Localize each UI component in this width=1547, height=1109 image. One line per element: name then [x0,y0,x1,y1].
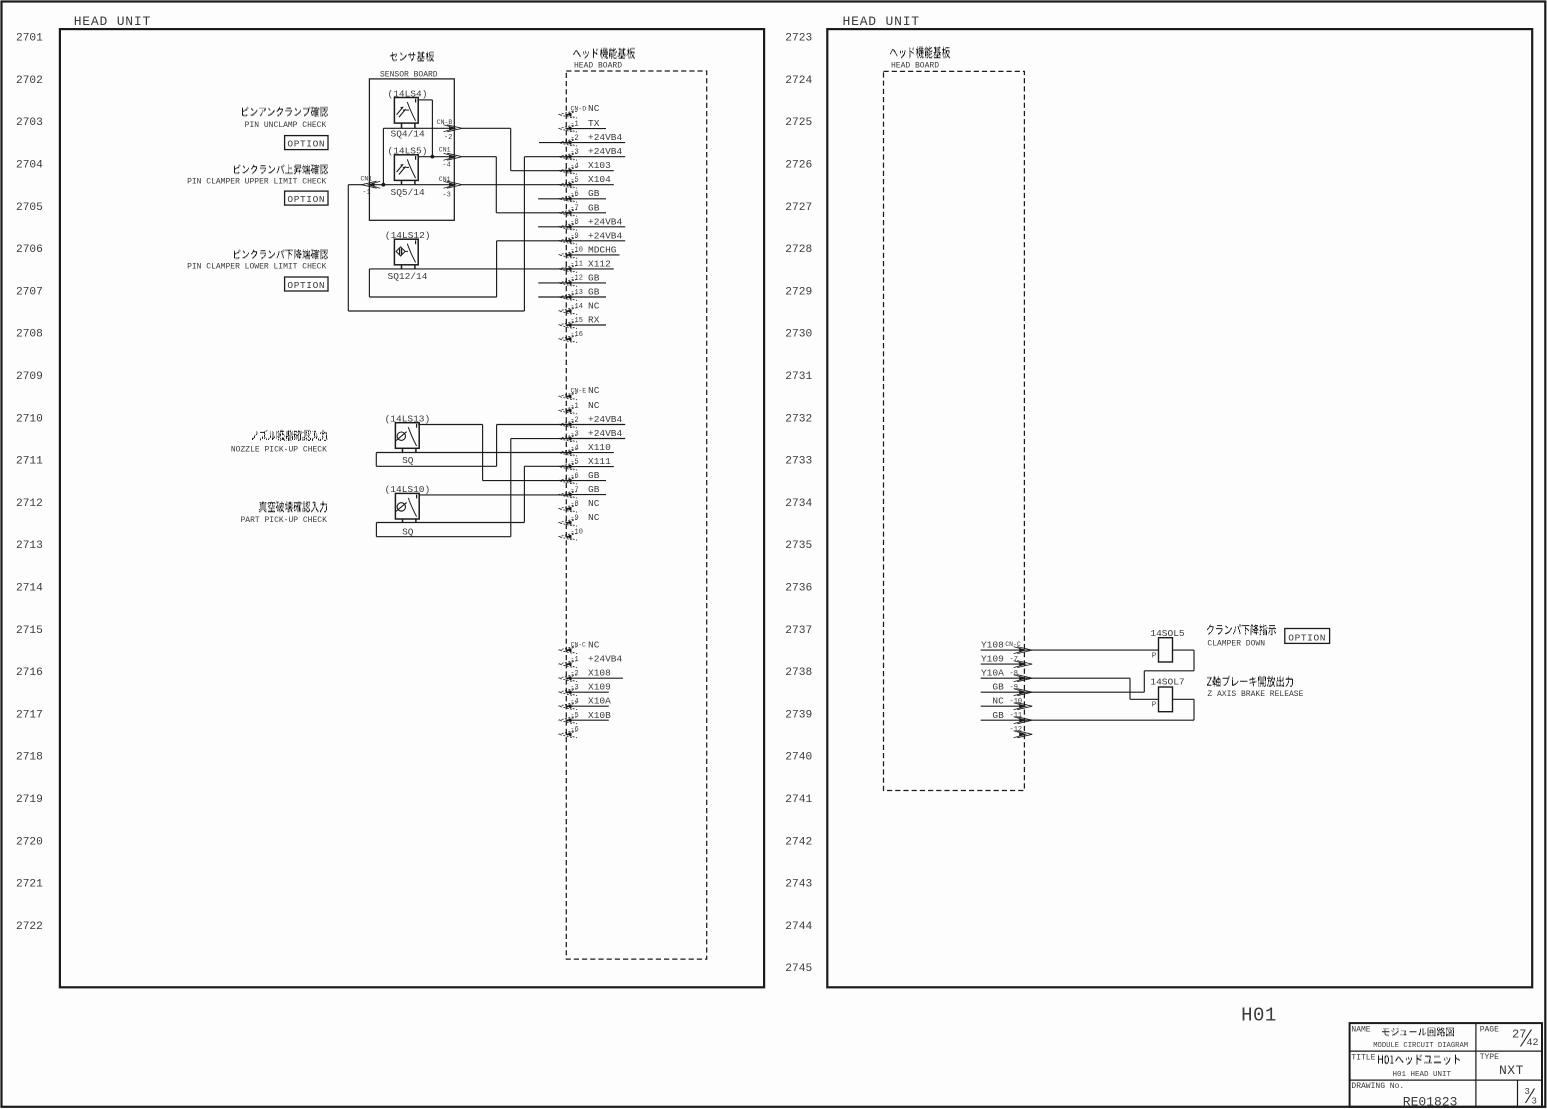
svg-text:OPTION: OPTION [287,194,325,205]
svg-text:2702: 2702 [16,75,43,87]
svg-text:2708: 2708 [16,329,43,341]
SQ4/14 ref label [391,129,426,140]
stub pin8 +24VB4 [538,226,566,228]
svg-text:-8: -8 [570,501,578,509]
svg-text:TX: TX [588,118,600,129]
svg-text:HEAD UNIT: HEAD UNIT [74,14,151,29]
svg-text:NC: NC [992,696,1004,707]
svg-text:TYPE: TYPE [1480,1053,1499,1062]
connector CN-C (right) pin -10 NC [981,696,1032,710]
svg-text:X111: X111 [588,456,611,467]
svg-text:2740: 2740 [785,752,812,764]
svg-text:RX: RX [588,315,600,326]
svg-text:GB: GB [588,188,600,199]
junction dot on SQ5 rail [382,183,386,187]
wire Y10A to SOL7 [1024,678,1158,699]
svg-text:HEAD BOARD: HEAD BOARD [891,62,939,71]
svg-text:-4: -4 [442,162,450,170]
connector CN-C (right) pin CN-C Y108 [981,640,1032,654]
svg-text:-6: -6 [570,472,578,480]
svg-text:P: P [1152,652,1157,660]
connector CN-DNC pin 2 +24VB4 [559,132,626,146]
svg-text:MDCHG: MDCHG [588,244,617,255]
sensor board label EN [380,70,438,79]
annotation part pick-up JP [259,502,327,512]
svg-text:2722: 2722 [16,921,43,933]
annotation z axis brake EN [1207,690,1303,699]
wire SQ10 top to pin7 GB [419,494,566,496]
title block name EN [1373,1042,1468,1050]
svg-text:2701: 2701 [16,33,43,45]
title block DRAWING label [1351,1082,1404,1091]
svg-text:+24VB4: +24VB4 [588,230,623,241]
wire SQ13 row to pin4 X110 [376,452,566,454]
svg-text:RE01823: RE01823 [1403,1094,1458,1109]
title block page number [1512,1028,1539,1050]
solenoid 14SOL7 [1152,687,1173,712]
svg-text:2735: 2735 [785,540,812,552]
connector CN-CNC pin 5 X10B [559,710,612,724]
svg-text:SQ: SQ [402,455,414,466]
SQ10 ref label SQ [402,526,414,537]
connector CN-DNC pin 16 nc [559,331,583,343]
svg-text:2742: 2742 [785,836,812,848]
svg-text:X104: X104 [588,174,611,185]
SQ13 ref label SQ [402,455,414,466]
svg-text:3: 3 [1525,1087,1530,1097]
svg-text:-11: -11 [570,261,583,269]
svg-text:SQ4/14: SQ4/14 [391,129,426,140]
connector CN-ENC pin 9 NC [559,512,600,526]
solenoid 14SOL5 label [1150,628,1185,639]
limit switch SQ4/14 box [394,98,418,129]
svg-text:2724: 2724 [785,75,812,87]
svg-text:-1: -1 [570,402,578,410]
svg-text:-15: -15 [570,317,583,325]
svg-text:X109: X109 [588,682,611,693]
solenoid 14SOL7 label [1150,677,1184,688]
connector CN-ENC pin 10 nc [559,529,583,541]
svg-text:2714: 2714 [16,583,43,595]
title block TYPE label [1480,1053,1499,1062]
svg-text:-6: -6 [570,191,578,199]
svg-text:2720: 2720 [16,836,43,848]
limit switch 14LS4 label [388,88,428,99]
connector CN-ENC pin 8 NC [559,498,600,512]
svg-text:2744: 2744 [785,921,812,933]
svg-text:NC: NC [588,301,600,312]
limit switch SQ12/14 box [394,239,418,269]
annotation pin unclamp check JP [242,107,328,116]
wire SQ12 row to pin11 X112 [369,268,566,270]
svg-text:H01 HEAD UNIT: H01 HEAD UNIT [1393,1071,1452,1079]
svg-text:NC: NC [588,400,600,411]
svg-text:2739: 2739 [785,709,812,721]
connector CN-B-2 label [437,119,453,142]
head board (left) label JP [573,48,635,58]
connector CN-DNC pin 14 NC [559,301,600,315]
svg-text:NC: NC [588,385,600,396]
connector CN-C (right) pin -11 GB [981,710,1032,724]
svg-text:NXT: NXT [1499,1063,1524,1078]
svg-text:CN1: CN1 [361,176,373,183]
svg-text:-1: -1 [570,656,578,664]
annotation pin clamper upper EN [187,178,326,187]
annotation pin clamper lower EN [187,263,326,272]
SQ5/14 ref label [391,187,426,198]
svg-text:OPTION: OPTION [287,139,325,150]
connector CN-DNC pin 7 GB [559,202,607,216]
wire SQ4 bottom rail [383,127,454,129]
stub pin12 GB [538,282,566,284]
stub pin2 +24VB4 [539,142,566,144]
svg-text:2704: 2704 [16,160,43,172]
option box 2 [285,191,328,205]
right panel title HEAD UNIT [843,14,920,29]
head board (right) dashed outline [884,71,1025,790]
wire LS4 top to junction [418,100,432,157]
connector CN-CNC header NC [559,639,600,653]
svg-text:14SOL7: 14SOL7 [1150,677,1184,688]
connector CN-C (right) pin -9 GB [981,682,1032,696]
connector CN-C (right) pin -12 nc [1010,726,1033,738]
connector CN-ENC pin 3 +24VB4 [559,428,626,442]
svg-text:TITLE: TITLE [1351,1054,1375,1063]
svg-text:+24VB4: +24VB4 [588,146,623,157]
svg-text:-14: -14 [570,303,583,311]
svg-text:2727: 2727 [785,202,812,214]
junction dot at LS5 output [431,155,435,159]
option box 1 [285,136,328,150]
title block title EN [1393,1071,1452,1079]
connector CN-CNC pin 2 X108 [559,668,623,682]
connector CN1-1 label [361,176,373,198]
head board (left) dashed outline [566,71,706,959]
svg-text:MODULE CIRCUIT DIAGRAM: MODULE CIRCUIT DIAGRAM [1373,1042,1468,1050]
annotation nozzle pick-up EN [231,446,327,455]
svg-text:GB: GB [588,287,600,298]
svg-text:2706: 2706 [16,244,43,256]
svg-text:-16: -16 [570,331,583,339]
stub pin13 GB [538,296,566,298]
svg-text:+24VB4: +24VB4 [588,654,623,665]
connector CN-DNC pin 8 +24VB4 [559,216,626,230]
svg-text:2716: 2716 [16,667,43,679]
svg-text:GB: GB [588,272,600,283]
connector CN-DNC pin 13 GB [559,287,607,301]
svg-text:-10: -10 [570,529,583,537]
right row numbers 2723-2745 [785,33,812,976]
sheet label H01 [1241,1005,1277,1027]
svg-text:PART PICK-UP CHECK: PART PICK-UP CHECK [240,516,327,525]
connector CN-CNC pin 4 X10A [559,696,612,710]
svg-text:X10B: X10B [588,710,611,721]
connector CN1-1 pin [362,181,381,188]
svg-text:PIN CLAMPER UPPER LIMIT CHECK: PIN CLAMPER UPPER LIMIT CHECK [187,178,326,187]
svg-text:+24VB4: +24VB4 [588,414,623,425]
svg-text:2741: 2741 [785,794,812,806]
connector CN1-4 label [439,147,451,170]
wire CN1-4 to pin7 GB [462,157,566,213]
svg-text:-2: -2 [570,670,578,678]
connector CN-DNC pin 9 +24VB4 [559,230,626,244]
limit switch SQ5/14 box [394,155,418,185]
svg-text:-13: -13 [570,289,583,297]
svg-text:-3: -3 [570,149,578,157]
svg-text:2725: 2725 [785,117,812,129]
connector CN-DNC pin 15 RX [559,315,607,329]
svg-text:2728: 2728 [785,244,812,256]
connector CN-CNC pin 6 nc [559,726,579,738]
svg-text:NC: NC [588,103,600,114]
connector CN-DNC pin 4 X103 [559,160,614,174]
annotation z axis brake JP [1207,676,1293,686]
svg-text:PAGE: PAGE [1480,1026,1499,1035]
limit switch SQ13 box [395,423,419,453]
annotation pin clamper upper JP [234,165,328,174]
connector CN-ENC pin 7 GB [559,484,607,498]
connector CN-ENC pin 2 +24VB4 [559,414,626,428]
svg-text:-6: -6 [570,726,578,734]
svg-text:Z AXIS BRAKE RELEASE: Z AXIS BRAKE RELEASE [1207,690,1303,699]
title block PAGE label [1480,1026,1499,1035]
head board (right) label JP [890,47,950,58]
svg-text:SQ12/14: SQ12/14 [388,271,428,282]
connector CN-ENC pin 5 X111 [559,456,614,470]
svg-text:PIN UNCLAMP CHECK: PIN UNCLAMP CHECK [245,121,327,130]
left panel title HEAD UNIT [74,14,151,29]
svg-text:CN1: CN1 [439,176,451,183]
svg-text:-2: -2 [444,134,452,142]
left panel frame HEAD UNIT [60,29,764,987]
svg-text:2707: 2707 [16,286,43,298]
svg-text:+24VB4: +24VB4 [588,216,623,227]
svg-text:OPTION: OPTION [287,280,325,291]
connector CN-DNC pin 12 GB [559,272,607,286]
annotation pin unclamp check EN [245,121,327,130]
svg-text:2729: 2729 [785,286,812,298]
svg-text:CN1: CN1 [439,147,451,154]
svg-text:+24VB4: +24VB4 [588,132,623,143]
option box 3 [285,277,328,291]
connector CN-ENC pin 4 X110 [559,442,614,456]
svg-text:2736: 2736 [785,583,812,595]
head board (right) label EN [891,62,939,71]
title block NAME label [1351,1026,1370,1035]
svg-text:-5: -5 [570,177,578,185]
svg-text:-3: -3 [570,684,578,692]
wire +24VB4 pin3 to CN1-1 [348,157,566,311]
svg-text:-4: -4 [570,163,578,171]
wire LS13 top to pin6 GB [418,425,566,481]
wire SQ10 to pin5 X111 [524,466,566,522]
svg-text:27: 27 [1512,1028,1526,1042]
annotation nozzle pick-up JP [252,430,328,440]
connector CN1-3 label [439,176,451,199]
wire CN1-3 to pin5 X104 [462,184,566,186]
svg-text:2726: 2726 [785,160,812,172]
connector CN1-4 pin [444,153,463,160]
svg-text:-9: -9 [570,515,578,523]
head board (left) label EN [574,61,622,70]
connector CN-DNC pin 6 GB [559,188,607,202]
svg-text:2745: 2745 [785,963,812,975]
solenoid 14SOL5 [1152,638,1173,662]
svg-text:OPTION: OPTION [1288,632,1326,643]
svg-text:-4: -4 [570,444,578,452]
svg-text:42: 42 [1527,1038,1539,1049]
svg-text:-8: -8 [570,219,578,227]
svg-text:2730: 2730 [785,329,812,341]
svg-text:HEAD UNIT: HEAD UNIT [843,14,920,29]
left row numbers 2701-2722 [16,33,43,933]
svg-text:Y108: Y108 [981,640,1004,651]
connector CN-ENC pin 6 GB [559,470,607,484]
svg-text:2717: 2717 [16,709,43,721]
svg-text:2731: 2731 [785,371,812,383]
svg-text:NOZZLE PICK-UP CHECK: NOZZLE PICK-UP CHECK [231,446,327,455]
title block drawing number [1403,1094,1458,1109]
svg-text:SENSOR BOARD: SENSOR BOARD [380,70,438,79]
stub pin6 GB [538,198,566,200]
svg-text:2710: 2710 [16,413,43,425]
svg-text:CLAMPER DOWN: CLAMPER DOWN [1207,639,1265,648]
connector CN-CNC pin 1 +24VB4 [559,654,623,668]
svg-text:-9: -9 [1010,684,1018,692]
svg-text:DRAWING No.: DRAWING No. [1351,1082,1404,1091]
svg-text:2705: 2705 [16,202,43,214]
wire Y108 to SOL5 [1024,649,1158,651]
svg-text:PIN CLAMPER LOWER LIMIT CHECK: PIN CLAMPER LOWER LIMIT CHECK [187,263,326,272]
wire +24VB4 pin2 to SQ13 [376,425,566,467]
svg-text:-1: -1 [570,120,578,128]
svg-text:+24VB4: +24VB4 [588,428,623,439]
svg-text:-2: -2 [570,416,578,424]
SQ12/14 ref label [388,271,428,282]
svg-text:H01: H01 [1241,1005,1277,1027]
svg-text:-8: -8 [1010,670,1018,678]
wire SOL7 return to GB-11 [1024,699,1194,720]
connector CN-C (right) pin -7 Y109 [981,654,1032,668]
svg-text:X10A: X10A [588,696,611,707]
svg-text:GB: GB [588,484,600,495]
svg-text:X108: X108 [588,668,611,679]
wire left rail SQ4-SQ5 [382,128,384,184]
svg-text:2719: 2719 [16,794,43,806]
svg-text:2703: 2703 [16,117,43,129]
connector CN-C (right) pin -8 Y10A [981,668,1032,682]
wire CN-B-2 to pin4 X103 [462,128,566,170]
title block type NXT [1499,1063,1524,1078]
limit switch SQ10 box [395,493,419,522]
wire SQ5 bottom rail [369,184,454,186]
connector CN-DNC pin 11 X112 [559,258,614,272]
svg-text:2713: 2713 [16,540,43,552]
limit switch 14LS12 label [385,230,431,241]
wire LS5 top to CN1-4 [418,156,454,158]
svg-text:NC: NC [588,498,600,509]
svg-text:SQ: SQ [402,526,414,537]
svg-text:-1: -1 [362,189,370,197]
svg-text:-2: -2 [570,134,578,142]
svg-text:X110: X110 [588,442,611,453]
svg-text:X103: X103 [588,160,611,171]
limit switch 14LS5 label [388,145,428,156]
option box right [1285,629,1330,644]
svg-text:P: P [1152,702,1157,710]
sensor board label JP [390,52,434,61]
svg-text:Y109: Y109 [981,654,1004,665]
annotation part pick-up EN [240,516,327,525]
svg-text:-7: -7 [1010,656,1018,664]
svg-text:NAME: NAME [1351,1026,1370,1035]
svg-text:NC: NC [588,639,600,650]
connector CN-DNC pin 5 X104 [559,174,614,188]
svg-text:2733: 2733 [785,456,812,468]
svg-text:NC: NC [588,512,600,523]
svg-text:2737: 2737 [785,625,812,637]
connector CN-CNC pin 3 X109 [559,682,612,696]
wire SQ10 row [376,522,524,524]
svg-text:GB: GB [992,682,1004,693]
svg-text:2732: 2732 [785,413,812,425]
svg-text:-5: -5 [570,458,578,466]
svg-text:2743: 2743 [785,879,812,891]
title block TITLE label [1351,1054,1375,1063]
connector CN-ENC pin 1 NC [559,400,600,414]
connector CN-DNC pin 3 +24VB4 [559,146,626,160]
svg-text:-5: -5 [570,712,578,720]
connector CN-DNC pin 10 MDCHG [559,244,620,258]
svg-text:2709: 2709 [16,371,43,383]
svg-text:GB: GB [588,202,600,213]
wire +24VB4 pin9 to SQ12 [369,241,566,297]
svg-text:X112: X112 [588,258,611,269]
connector CN-DNC pin 1 TX [559,118,607,132]
svg-text:HEAD BOARD: HEAD BOARD [574,61,622,70]
svg-text:-12: -12 [570,275,583,283]
svg-text:2718: 2718 [16,752,43,764]
svg-text:-10: -10 [570,247,583,255]
svg-text:2711: 2711 [16,456,43,468]
connector CN1-3 pin [444,181,463,188]
svg-text:2721: 2721 [16,879,43,891]
svg-text:-4: -4 [570,698,578,706]
right panel frame HEAD UNIT [827,29,1532,987]
svg-text:-3: -3 [570,430,578,438]
svg-text:3: 3 [1532,1097,1537,1107]
svg-text:2734: 2734 [785,498,812,510]
svg-text:-7: -7 [570,205,578,213]
svg-text:Y10A: Y10A [981,668,1004,679]
limit switch 14LS13 label [385,413,431,424]
title block frame [1350,1023,1542,1107]
svg-text:-3: -3 [442,191,450,199]
title block title JP [1378,1055,1460,1064]
connector CN-ENC header NC [559,385,600,400]
svg-text:2715: 2715 [16,625,43,637]
wire +24VB4 pin3 to SQ10 [376,439,566,537]
svg-text:GB: GB [992,710,1004,721]
annotation pin clamper lower JP [234,250,328,259]
svg-text:-7: -7 [570,486,578,494]
svg-text:SQ5/14: SQ5/14 [391,187,426,198]
svg-text:-9: -9 [570,233,578,241]
sensor board box [369,79,454,220]
connector CN-DNC header NC [559,103,600,118]
annotation clamper down EN [1207,639,1265,648]
svg-text:2712: 2712 [16,498,43,510]
